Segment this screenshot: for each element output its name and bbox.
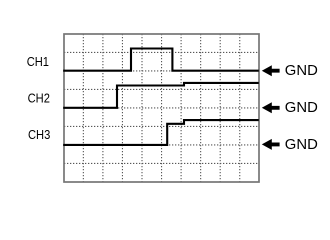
GND arrow CH2	[262, 102, 280, 113]
grid vertical dotted lines	[83, 34, 239, 182]
svg-text:GND: GND	[285, 136, 318, 153]
CH2 waveform trace	[63, 83, 259, 108]
svg-text:CH3: CH3	[28, 127, 50, 142]
CH1 waveform trace	[63, 49, 259, 71]
grid horizontal dotted lines	[64, 52, 259, 163]
svg-text:GND: GND	[285, 62, 318, 79]
plot box border	[64, 34, 259, 182]
svg-text:GND: GND	[285, 99, 318, 116]
CH3 waveform trace	[63, 120, 259, 145]
GND arrow CH1	[262, 65, 280, 76]
GND arrow CH3	[262, 139, 280, 150]
svg-text:CH2: CH2	[28, 91, 50, 106]
svg-text:CH1: CH1	[27, 54, 49, 69]
